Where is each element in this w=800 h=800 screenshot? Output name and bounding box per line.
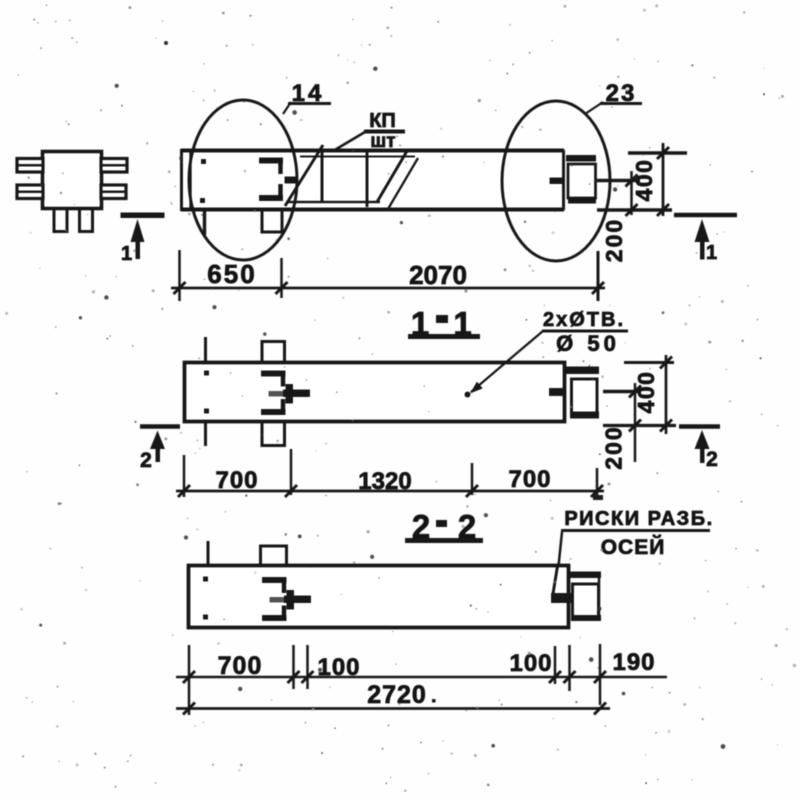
svg-text:РИСКИ РАЗБ.: РИСКИ РАЗБ. (564, 508, 713, 530)
svg-text:1320: 1320 (358, 468, 411, 495)
svg-text:шт: шт (370, 131, 395, 152)
svg-text:200: 200 (601, 218, 627, 262)
svg-text:2: 2 (140, 449, 152, 472)
svg-text:Ø 50: Ø 50 (556, 331, 620, 356)
svg-text:2хØТВ.: 2хØТВ. (543, 309, 625, 331)
svg-text:КП: КП (369, 110, 396, 132)
svg-text:190: 190 (612, 649, 655, 676)
svg-text:2720: 2720 (367, 681, 427, 709)
svg-text:2070: 2070 (409, 260, 467, 290)
svg-text:2: 2 (706, 448, 718, 471)
svg-text:700: 700 (215, 467, 258, 494)
svg-text:100: 100 (509, 650, 552, 677)
svg-text:700: 700 (218, 652, 263, 680)
svg-text:200: 200 (601, 425, 627, 469)
svg-text:400: 400 (631, 159, 657, 202)
svg-text:650: 650 (207, 259, 256, 289)
svg-text:1: 1 (121, 243, 132, 265)
svg-text:ОСЕЙ: ОСЕЙ (601, 535, 666, 559)
svg-text:700: 700 (508, 466, 551, 493)
svg-text:1: 1 (706, 242, 717, 264)
svg-text:100: 100 (317, 654, 360, 681)
